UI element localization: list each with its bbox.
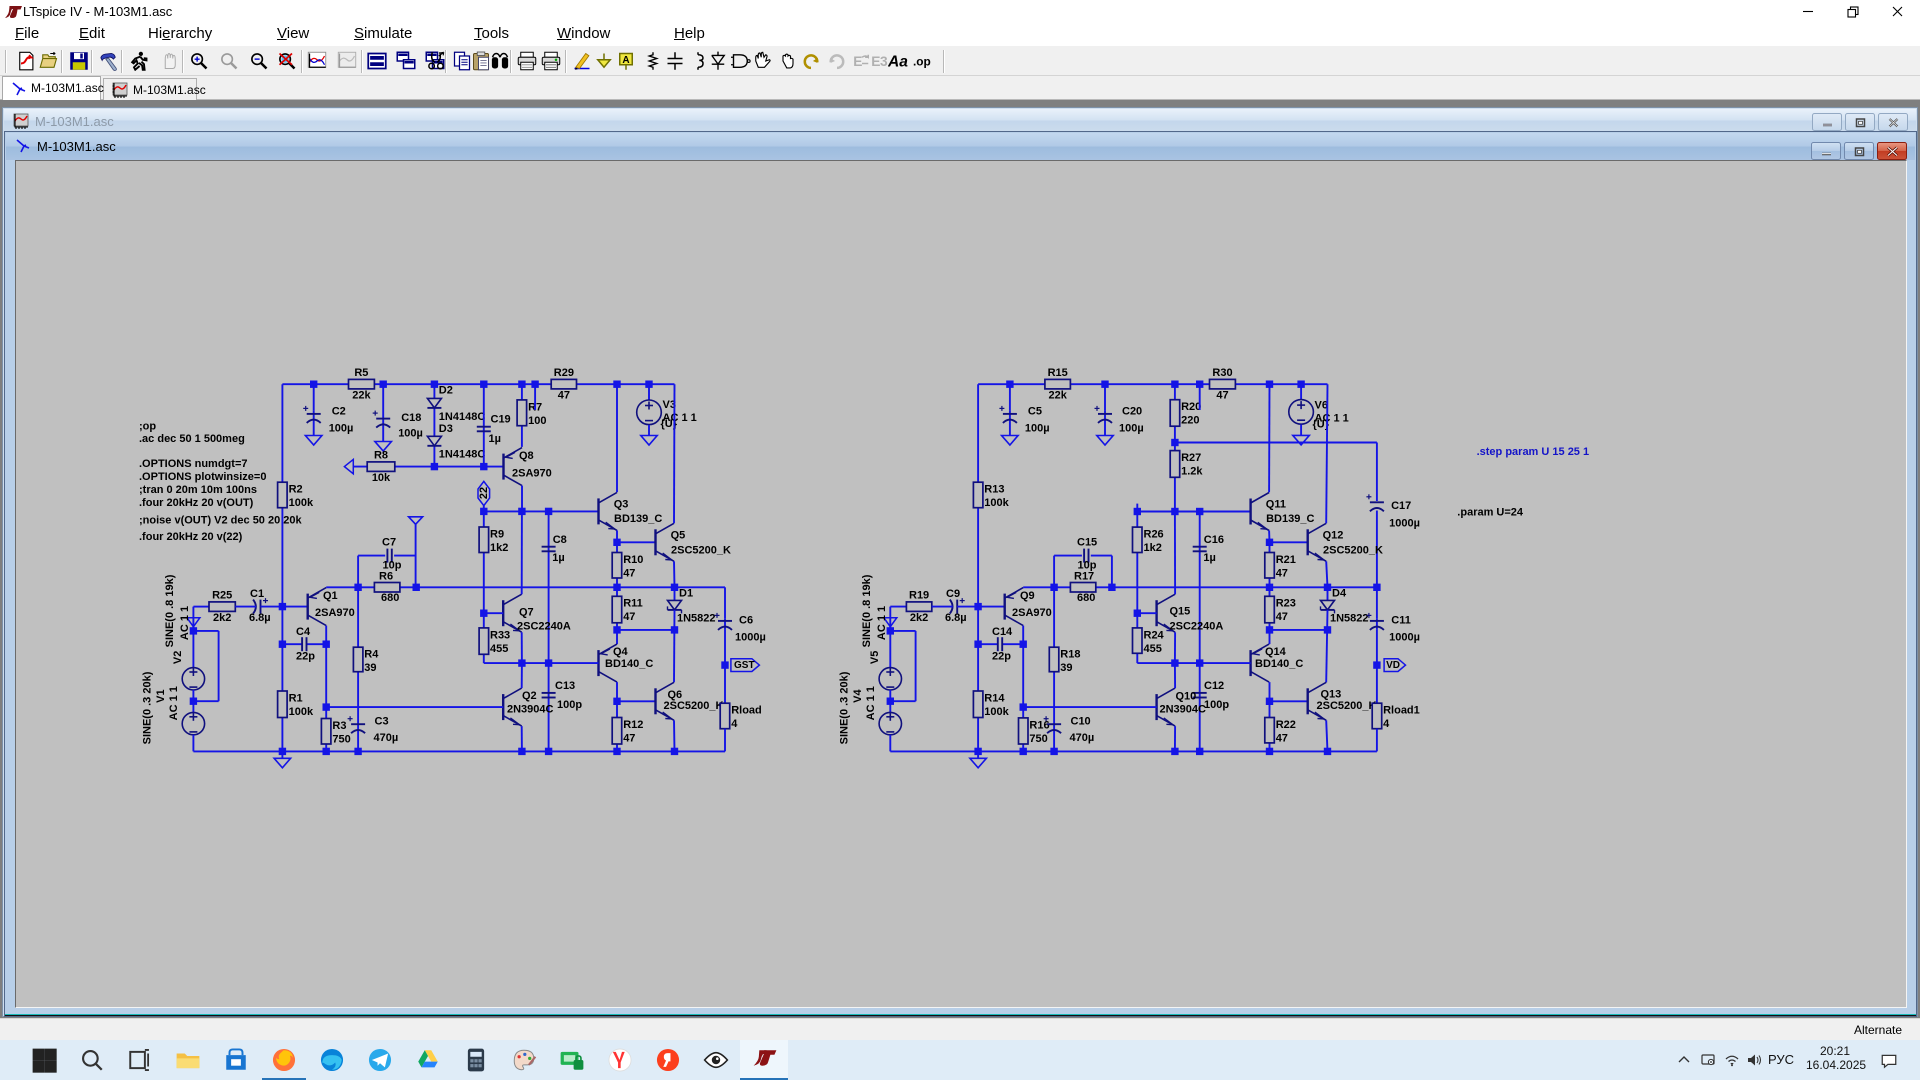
wire Q7 base stub xyxy=(484,612,503,614)
node junction R20 R27 row441 xyxy=(1171,439,1178,446)
node junction rail R20 xyxy=(1171,381,1178,388)
wire Rload to ground xyxy=(724,729,726,752)
directive param U xyxy=(1457,507,1524,519)
resistor R13 xyxy=(973,482,1009,509)
svg-text:D2: D2 xyxy=(439,385,453,397)
node junction Q11e R21 xyxy=(1266,539,1273,546)
svg-text:100µ: 100µ xyxy=(398,427,423,439)
wire R21 column xyxy=(1269,542,1271,587)
label D3 value xyxy=(439,449,486,461)
wire Q2 base long xyxy=(326,706,503,708)
svg-text:R25: R25 xyxy=(212,589,232,601)
svg-text:750: 750 xyxy=(332,733,350,745)
label V6 value U xyxy=(1313,418,1330,430)
voltage source V6 xyxy=(1289,400,1314,425)
wire ground row left circuit xyxy=(193,750,725,752)
wire Q14 emitter up xyxy=(1269,630,1271,644)
wire Q9 emitter riser xyxy=(1022,586,1024,588)
wire V3 bottom xyxy=(648,425,650,435)
label V1 AC xyxy=(168,686,180,720)
node junction gnd R16 xyxy=(1020,748,1027,755)
svg-text:;op: ;op xyxy=(139,421,156,433)
transistor Q5 xyxy=(656,523,731,561)
capacitor C12 xyxy=(1193,680,1230,711)
wire R20 column xyxy=(1174,384,1176,442)
svg-text:.op: .op xyxy=(913,54,931,68)
node junction flag V2 loop xyxy=(190,627,197,634)
svg-text:C17: C17 xyxy=(1391,500,1411,512)
svg-text:V2: V2 xyxy=(172,651,184,664)
node junction C8 top xyxy=(545,508,552,515)
svg-text:SINE(0 .3 20k): SINE(0 .3 20k) xyxy=(141,671,153,744)
label R17 value xyxy=(1077,592,1095,604)
label V5 name xyxy=(869,651,881,664)
wire C14 row right xyxy=(1002,643,1023,645)
wire row Q12 base xyxy=(1270,541,1308,543)
resistor R2 xyxy=(278,482,314,509)
node junction V2 V1 loop xyxy=(190,698,197,705)
wire C9 right to Q9 base xyxy=(957,606,1005,608)
svg-text:C18: C18 xyxy=(401,412,421,424)
resistor R16 xyxy=(1019,718,1050,745)
svg-text:Q15: Q15 xyxy=(1170,606,1191,618)
svg-text:C5: C5 xyxy=(1028,405,1042,417)
wire input flag corner xyxy=(193,607,209,631)
svg-text:AC 1 1: AC 1 1 xyxy=(865,686,877,720)
net flag VD xyxy=(1384,659,1405,672)
svg-text:C8: C8 xyxy=(553,534,567,546)
wire ground row right circuit xyxy=(890,750,1377,752)
resistor R7 xyxy=(517,400,546,427)
resistor R27 xyxy=(1170,451,1203,478)
node junction rail stub xyxy=(531,381,538,388)
wire R19 to C9 xyxy=(932,606,953,608)
svg-text:;noise v(OUT) V2 dec 50 20 20k: ;noise v(OUT) V2 dec 50 20 20k xyxy=(139,515,303,527)
wire V5 to V4 xyxy=(889,690,891,712)
wire Q3 collector riser xyxy=(616,384,618,492)
wire left input column V+ drop xyxy=(281,384,283,751)
svg-text:2SC2240A: 2SC2240A xyxy=(517,621,571,633)
wire R26 R24 column xyxy=(1136,512,1138,664)
svg-text:1N4148C: 1N4148C xyxy=(439,449,486,461)
node junction VD out xyxy=(1373,661,1380,668)
node junction C4 right xyxy=(323,641,330,648)
svg-text:Rload1: Rload1 xyxy=(1383,705,1420,717)
wire Q7 collector riser xyxy=(521,511,523,594)
ground below C2 xyxy=(305,436,322,446)
node junction rail C5 xyxy=(1006,381,1013,388)
wire top supply rail left xyxy=(282,383,674,385)
resistor R17 xyxy=(1070,583,1095,593)
svg-text:2SC5200_K: 2SC5200_K xyxy=(1323,544,1383,556)
taskbar xyxy=(0,1040,1920,1080)
wire Q11 emitter drop xyxy=(1268,531,1270,543)
capacitor C8 xyxy=(542,534,567,564)
resistor Rload xyxy=(720,703,762,730)
svg-text:.OPTIONS plotwinsize=0: .OPTIONS plotwinsize=0 xyxy=(139,471,266,483)
label D1 value xyxy=(677,613,716,625)
wire D4 column xyxy=(1327,587,1329,600)
wire source bypass loop xyxy=(193,631,218,701)
svg-text:455: 455 xyxy=(490,643,508,655)
svg-text:R6: R6 xyxy=(379,570,393,582)
node junction gnd Q6e xyxy=(671,748,678,755)
label D2 name xyxy=(439,385,453,397)
node junction gnd C3 xyxy=(354,748,361,755)
node junction C14 right xyxy=(1020,641,1027,648)
node junction V5 V4 loop xyxy=(887,698,894,705)
svg-text:.OPTIONS numdgt=7: .OPTIONS numdgt=7 xyxy=(139,458,247,470)
directive step param xyxy=(1477,446,1590,458)
wire C14 row left xyxy=(978,643,998,645)
voltage source V4 xyxy=(879,712,901,734)
svg-text:C7: C7 xyxy=(382,536,396,548)
resistor R5 xyxy=(349,367,375,402)
wire R23 column xyxy=(1269,587,1271,630)
net flag 22 xyxy=(478,481,490,505)
svg-text:470µ: 470µ xyxy=(1070,732,1095,744)
wire C4 row right xyxy=(307,643,327,645)
wire R22 column xyxy=(1269,701,1271,751)
node junction R27 Q15c row510 xyxy=(1171,508,1178,515)
svg-text:BD139_C: BD139_C xyxy=(614,513,662,525)
wire feedback row 586 xyxy=(326,586,725,588)
capacitor C17 xyxy=(1366,494,1420,529)
label V2 AC xyxy=(179,606,191,640)
label V3 value AC xyxy=(663,412,697,424)
wire row node 22 xyxy=(484,510,599,512)
node junction R23 D4 row xyxy=(1266,626,1273,633)
svg-text:R29: R29 xyxy=(554,367,574,379)
svg-text:Q14: Q14 xyxy=(1265,646,1287,658)
svg-text:100k: 100k xyxy=(984,497,1009,509)
node junction GST out xyxy=(721,661,728,668)
svg-text:R13: R13 xyxy=(984,484,1004,496)
node junction rail V6 xyxy=(1297,381,1304,388)
svg-text:2k2: 2k2 xyxy=(213,612,231,624)
svg-text:D3: D3 xyxy=(439,423,453,435)
resistor Rload1 xyxy=(1372,703,1420,730)
resistor R24 xyxy=(1133,628,1165,655)
svg-text:2SC5200_K: 2SC5200_K xyxy=(1317,700,1377,712)
svg-text:1N5822: 1N5822 xyxy=(1330,613,1369,625)
label R6 name xyxy=(379,570,393,582)
svg-text:Q12: Q12 xyxy=(1323,529,1344,541)
node junction Q4c R12 Q6b xyxy=(613,698,620,705)
svg-text:39: 39 xyxy=(364,662,376,674)
node junction Q1c R3 base wire xyxy=(323,703,330,710)
svg-text:47: 47 xyxy=(558,390,570,402)
svg-text:;tran 0 20m 10m 100ns: ;tran 0 20m 10m 100ns xyxy=(139,484,257,496)
capacitor C6 xyxy=(715,613,766,644)
label V6 value AC xyxy=(1315,413,1349,425)
wire main ground stem xyxy=(281,751,283,758)
wire Rload1 to ground xyxy=(1376,729,1378,752)
svg-text:R5: R5 xyxy=(354,367,368,379)
resistor R25 xyxy=(209,589,235,624)
ground below V6 xyxy=(1293,435,1310,445)
wire Q15 collector riser xyxy=(1174,512,1176,595)
transistor Q2 xyxy=(503,688,553,726)
svg-text:2SC2240A: 2SC2240A xyxy=(1170,621,1224,633)
wire Q10 collector riser xyxy=(1174,663,1176,688)
svg-text:22k: 22k xyxy=(1049,390,1068,402)
svg-text:100k: 100k xyxy=(984,706,1009,718)
svg-text:Q8: Q8 xyxy=(519,450,534,462)
node junction gnd R22 xyxy=(1266,748,1273,755)
voltage source V2 xyxy=(182,668,204,690)
wire input flag corner right xyxy=(890,607,906,631)
svg-text:1000µ: 1000µ xyxy=(1389,632,1420,644)
node junction Q9c R16 base wire xyxy=(1020,703,1027,710)
svg-text:680: 680 xyxy=(1077,592,1095,604)
wire stub above R26 xyxy=(1136,504,1138,512)
node junction Q3 emitter R10 xyxy=(613,539,620,546)
label D1 name xyxy=(679,588,693,600)
node junction C4 left xyxy=(279,641,286,648)
svg-text:2N3904C: 2N3904C xyxy=(507,703,554,715)
svg-text:R24: R24 xyxy=(1144,629,1165,641)
svg-text:C6: C6 xyxy=(739,615,753,627)
voltage source V5 xyxy=(879,668,901,690)
svg-text:.ac dec 50 1 500meg: .ac dec 50 1 500meg xyxy=(139,433,245,445)
svg-text:C20: C20 xyxy=(1122,405,1142,417)
svg-text:R4: R4 xyxy=(364,649,379,661)
svg-text:6.8µ: 6.8µ xyxy=(249,612,271,624)
node junction gnd R12 xyxy=(613,748,620,755)
svg-text:R1: R1 xyxy=(289,692,303,704)
node junction row586 R4 xyxy=(354,584,361,591)
svg-text:C19: C19 xyxy=(491,414,511,426)
transistor Q12 xyxy=(1308,523,1383,561)
svg-text:Rload: Rload xyxy=(731,705,762,717)
wire D2 D3 column xyxy=(433,384,435,466)
svg-text:1µ: 1µ xyxy=(489,433,501,445)
transistor Q14 xyxy=(1251,644,1304,682)
wire Q3 emitter drop xyxy=(616,530,618,542)
node junction R11 D1 row xyxy=(613,626,620,633)
wire R4 C3 column xyxy=(357,587,359,751)
svg-text:V1: V1 xyxy=(155,689,167,702)
diode D2 xyxy=(427,398,441,408)
capacitor C9 xyxy=(945,588,967,624)
capacitor C20 xyxy=(1095,405,1144,434)
svg-text:BD140_C: BD140_C xyxy=(605,658,653,670)
svg-text:R15: R15 xyxy=(1048,367,1068,379)
node junction rail C19 xyxy=(480,381,487,388)
wire 22 flag stem xyxy=(483,506,485,512)
node junction rail Q11 riser xyxy=(1266,381,1273,388)
ground below C18 xyxy=(375,442,392,452)
wire row Q6 base xyxy=(617,700,656,702)
wire R11 column xyxy=(616,587,618,630)
transistor Q4 xyxy=(599,644,654,682)
svg-text:1.2k: 1.2k xyxy=(1181,466,1203,478)
resistor R4 xyxy=(353,647,379,674)
capacitor C19 xyxy=(477,414,511,445)
document tabs xyxy=(0,76,1920,100)
wire C6 output column xyxy=(724,587,726,703)
svg-text:47: 47 xyxy=(1276,611,1288,623)
svg-text:.four 20kHz 20 v(22): .four 20kHz 20 v(22) xyxy=(139,531,243,543)
wire D1 to Q6 collector xyxy=(673,610,676,682)
svg-text:22k: 22k xyxy=(352,390,371,402)
label D4 name xyxy=(1332,588,1347,600)
svg-text:6.8µ: 6.8µ xyxy=(945,612,967,624)
svg-text:A: A xyxy=(622,55,629,66)
svg-text:39: 39 xyxy=(1060,662,1072,674)
svg-text:Q10: Q10 xyxy=(1176,691,1197,703)
svg-text:1µ: 1µ xyxy=(552,552,564,564)
wire C2 column xyxy=(313,384,315,435)
svg-text:100p: 100p xyxy=(557,699,582,711)
svg-text:1N5822: 1N5822 xyxy=(677,613,716,625)
svg-text:C16: C16 xyxy=(1204,534,1224,546)
node junction D1 Q4e row xyxy=(671,626,678,633)
svg-text:100k: 100k xyxy=(289,497,314,509)
svg-text:1µ: 1µ xyxy=(1203,552,1215,564)
node junction gnd C13 xyxy=(545,748,552,755)
wire R16 column xyxy=(1022,707,1024,751)
svg-text:R30: R30 xyxy=(1212,367,1232,379)
node junction rail Q3 riser xyxy=(613,381,620,388)
svg-text:V4: V4 xyxy=(852,688,864,702)
wire C17 to row586 xyxy=(1376,511,1378,588)
svg-text:R8: R8 xyxy=(374,449,388,461)
ground main left xyxy=(274,758,291,768)
wire R18 C10 column xyxy=(1053,587,1055,751)
wire Q15 base stub xyxy=(1137,612,1156,614)
svg-text:47: 47 xyxy=(623,567,635,579)
capacitor C14 xyxy=(992,626,1013,663)
svg-text:V6: V6 xyxy=(1315,399,1328,411)
wire V6 top xyxy=(1300,384,1302,399)
svg-text:BD140_C: BD140_C xyxy=(1255,658,1303,670)
node junction row586 D4 Q12e xyxy=(1324,584,1331,591)
svg-text:22p: 22p xyxy=(992,650,1011,662)
node junction row586 R11 xyxy=(613,584,620,591)
svg-text:47: 47 xyxy=(623,732,635,744)
transistor Q11 xyxy=(1251,493,1315,531)
input port flag V5 xyxy=(884,618,897,627)
wire D4 to Q13 collector xyxy=(1326,610,1327,682)
svg-text:R33: R33 xyxy=(490,629,510,641)
wire R27 column xyxy=(1174,443,1176,512)
wire row Q13 base xyxy=(1270,700,1308,702)
transistor Q8 xyxy=(504,448,552,486)
label V4 name xyxy=(852,688,864,702)
svg-text:750: 750 xyxy=(1029,733,1047,745)
wire Q2 emitter drop xyxy=(521,726,523,751)
svg-text:47: 47 xyxy=(1276,732,1288,744)
label V5 sine xyxy=(861,574,873,647)
svg-text:Q9: Q9 xyxy=(1020,590,1035,602)
ground below C5 xyxy=(1002,436,1019,446)
svg-text:VD: VD xyxy=(1386,660,1400,671)
node junction Q15 base R26 R24 xyxy=(1134,610,1141,617)
net flag GST xyxy=(731,659,760,672)
label V2 sine xyxy=(164,574,176,647)
svg-text:Q5: Q5 xyxy=(671,529,686,541)
resistor R23 xyxy=(1265,596,1296,623)
wire Q4 collector down xyxy=(616,682,618,701)
wire C15 top right xyxy=(1091,555,1112,557)
node junction C16 row510 xyxy=(1196,508,1203,515)
wire Q5 emitter drop xyxy=(673,561,676,587)
svg-text:R11: R11 xyxy=(623,598,643,610)
node junction row586 R18 xyxy=(1050,584,1057,591)
svg-text:GST: GST xyxy=(734,660,755,671)
label V5 AC xyxy=(876,606,888,640)
svg-text:C11: C11 xyxy=(1391,615,1411,627)
wire C11 output column xyxy=(1376,587,1378,703)
wire C7 right vert xyxy=(415,524,417,587)
svg-text:D4: D4 xyxy=(1332,588,1347,600)
resistor R11 xyxy=(612,596,643,623)
label V4 AC xyxy=(865,686,877,720)
node junction 22 R9 xyxy=(480,508,487,515)
wire base row R8 xyxy=(354,466,504,468)
node junction gnd C10 xyxy=(1050,748,1057,755)
transistor Q10 xyxy=(1157,688,1206,726)
resistor R21 xyxy=(1265,553,1296,580)
svg-text:.step param U 15 25 1: .step param U 15 25 1 xyxy=(1477,446,1590,458)
svg-text:Q11: Q11 xyxy=(1266,499,1286,511)
capacitor C13 xyxy=(542,680,583,711)
wire R3 column xyxy=(325,707,327,751)
label V1 sine xyxy=(141,671,153,744)
svg-text:1k2: 1k2 xyxy=(1144,542,1162,554)
svg-text:2SA970: 2SA970 xyxy=(1012,607,1052,619)
svg-text:4: 4 xyxy=(1383,718,1390,730)
wire Q1 collector drop xyxy=(325,626,327,708)
wire Q12 emitter drop xyxy=(1326,561,1327,587)
diode D3 xyxy=(427,436,441,446)
menu bar xyxy=(0,23,1920,45)
svg-text:R22: R22 xyxy=(1276,719,1296,731)
node junction row662 Q7e Q2c xyxy=(518,659,525,666)
wire Q14 collector down xyxy=(1269,682,1271,701)
voltage source V3 xyxy=(637,400,662,425)
node junction rail C20 xyxy=(1101,381,1108,388)
svg-text:2SC5200_K: 2SC5200_K xyxy=(664,700,724,712)
node junction row586 C7 right xyxy=(413,584,420,591)
node junction flag V5 loop xyxy=(887,627,894,634)
svg-text:47: 47 xyxy=(1216,390,1228,402)
svg-text:C15: C15 xyxy=(1077,536,1097,548)
label R6 value xyxy=(381,592,399,604)
svg-text:SINE(0 .8 19k): SINE(0 .8 19k) xyxy=(861,574,873,647)
svg-text:100: 100 xyxy=(528,415,546,427)
svg-text:C4: C4 xyxy=(296,626,311,638)
resistor R8 xyxy=(367,449,395,484)
svg-text:100µ: 100µ xyxy=(329,422,354,434)
node junction Q14c R22 Q13b xyxy=(1266,698,1273,705)
capacitor C3 xyxy=(348,716,399,745)
label D4 value xyxy=(1330,613,1369,625)
svg-text:SINE(0 .3 20k): SINE(0 .3 20k) xyxy=(838,671,850,744)
net flag left arrow at R8 xyxy=(344,459,353,473)
svg-text:470µ: 470µ xyxy=(374,732,399,744)
wire Q6 emitter drop xyxy=(673,720,676,751)
svg-text:1N4148C: 1N4148C xyxy=(439,411,486,423)
wire C15 left vert xyxy=(1053,556,1055,588)
wire row 441 to C17 xyxy=(1175,443,1377,502)
svg-text:47: 47 xyxy=(1276,567,1288,579)
svg-text:2SA970: 2SA970 xyxy=(315,607,355,619)
spice directives text block xyxy=(139,421,303,543)
wire Q9 collector drop xyxy=(1022,626,1024,708)
